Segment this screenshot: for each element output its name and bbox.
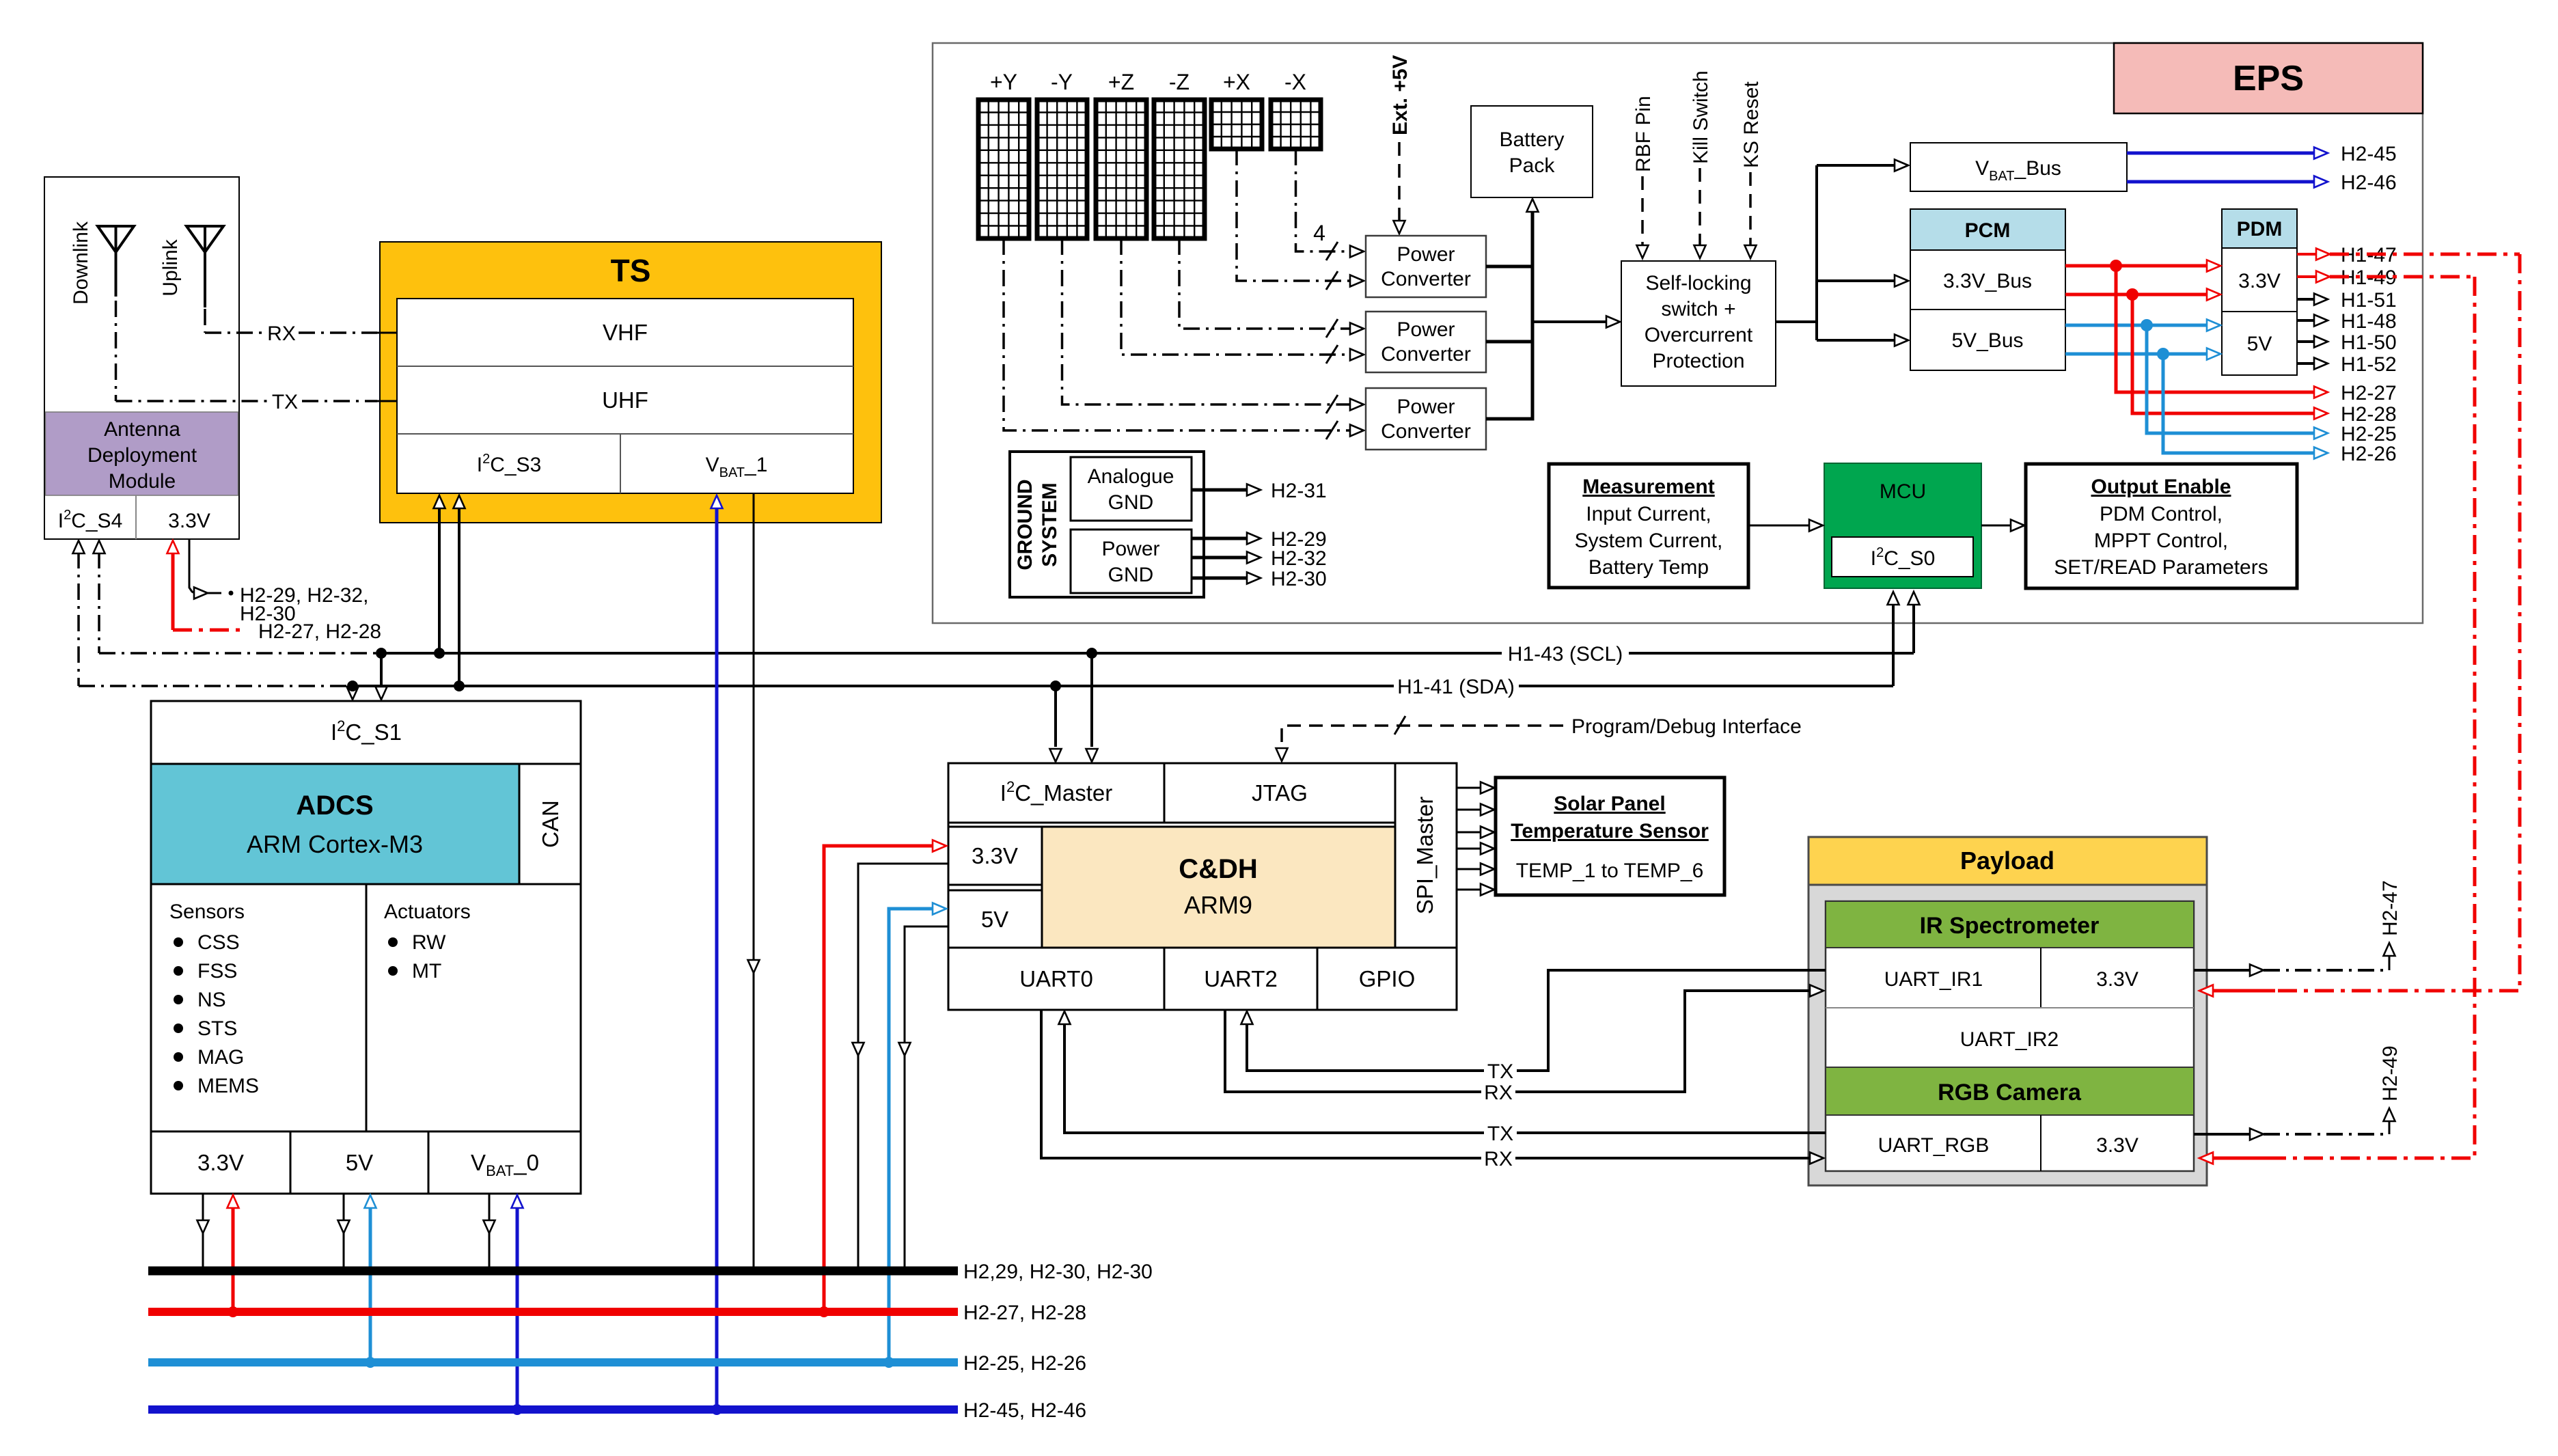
wire solar panel -Z to power converter (1179, 238, 1364, 338)
svg-text:Analogue: Analogue (1088, 465, 1174, 488)
svg-text:3.3V: 3.3V (168, 510, 210, 532)
payload UART_RGB / 3.3V row (1878, 1115, 2138, 1171)
svg-text:3.3V: 3.3V (972, 843, 1018, 868)
svg-text:3.3V: 3.3V (2096, 1134, 2138, 1157)
ADCS actuators list (384, 901, 471, 983)
TS row separators (397, 366, 853, 367)
solar panel +Y (978, 70, 1029, 238)
wire C&DH 3.3V red feed (819, 840, 946, 1318)
EPS title box (2114, 43, 2423, 113)
svg-text:Solar Panel: Solar Panel (1554, 793, 1665, 815)
svg-text:H2-25, H2-26: H2-25, H2-26 (963, 1352, 1086, 1375)
antenna symbol Uplink (187, 226, 223, 307)
wire Kill Switch (1690, 70, 1712, 258)
svg-text:Power: Power (1101, 538, 1159, 560)
svg-text:3.3V: 3.3V (2096, 968, 2138, 991)
TS inner box (397, 299, 853, 493)
svg-text:TX: TX (1487, 1060, 1513, 1083)
battery pack box (1471, 106, 1593, 197)
TS RX entry tick (377, 332, 397, 334)
svg-text:PCM: PCM (1965, 219, 2011, 242)
wire H1-50 output (2297, 331, 2397, 354)
svg-text:SYSTEM: SYSTEM (1039, 482, 1061, 566)
svg-text:UHF: UHF (602, 387, 648, 413)
wire IR 3.3V red feed from H1-47 (2199, 254, 2520, 997)
svg-text:Payload: Payload (1960, 847, 2054, 875)
wire H2-45 (2127, 143, 2397, 165)
svg-text:H1-48: H1-48 (2341, 310, 2397, 333)
svg-text:Converter: Converter (1381, 343, 1471, 366)
junction dots I2C bus (376, 648, 387, 659)
svg-text:H2-30: H2-30 (1271, 568, 1327, 590)
ADCS CAN cell (519, 764, 581, 884)
wire program/debug interface to JTAG (1276, 715, 1802, 761)
svg-text:+X: +X (1223, 70, 1250, 94)
wire trunk to VBAT_Bus (1817, 160, 1908, 171)
wire ADCS VBAT_0 blue riser (512, 1195, 523, 1415)
svg-text:NS: NS (197, 989, 226, 1011)
svg-text:System Current,: System Current, (1575, 530, 1723, 552)
power GND box (1071, 530, 1192, 593)
wire 5V_Bus to PDM line1 (2065, 319, 2220, 331)
wire UART2 TX to IR spectrometer (1241, 970, 1826, 1083)
svg-text:IR Spectrometer: IR Spectrometer (1920, 913, 2100, 939)
wire SDA drop to ADCS I2C_S1 (347, 685, 359, 700)
wire C&DH 5V cyan feed (883, 903, 946, 1369)
svg-text:ARM Cortex-M3: ARM Cortex-M3 (247, 830, 423, 858)
svg-text:H2-46: H2-46 (2341, 171, 2397, 194)
svg-text:Sensors: Sensors (169, 901, 245, 923)
svg-text:Self-locking: Self-locking (1645, 272, 1751, 294)
svg-text:3.3V_Bus: 3.3V_Bus (1943, 270, 2032, 292)
svg-text:Output Enable: Output Enable (2091, 476, 2231, 498)
TS box (380, 242, 881, 523)
svg-text:MT: MT (412, 960, 441, 983)
wire H2-29 (1192, 528, 1327, 551)
wire switch output trunk (1776, 320, 1817, 323)
svg-text:H2-49: H2-49 (2379, 1045, 2402, 1101)
svg-text:GROUND: GROUND (1014, 479, 1036, 570)
PDM box (2222, 209, 2297, 375)
wire power converter 2 output (1486, 340, 1532, 344)
svg-text:I2C_Master: I2C_Master (1000, 778, 1112, 806)
wire KS Reset (1740, 81, 1763, 258)
solar panel -Z (1154, 70, 1205, 238)
wire 3.3V_Bus to PDM line2 (2065, 288, 2220, 301)
wire IR 3.3V out H2-47 (2194, 880, 2402, 976)
svg-text:PDM Control,: PDM Control, (2100, 503, 2223, 525)
wire solar panel +Y to power converter (1004, 238, 1364, 439)
svg-text:Downlink: Downlink (70, 221, 92, 305)
svg-text:H1-50: H1-50 (2341, 331, 2397, 354)
wire ADCS 3.3V red riser (228, 1195, 239, 1317)
ground system box (1010, 452, 1204, 597)
svg-text:4: 4 (1313, 221, 1325, 245)
ADCS outer box (151, 701, 581, 1194)
wire solar panel -Y to power converter (1062, 238, 1364, 413)
antenna deployment module box (44, 177, 239, 539)
wire solar panel -X to power converter (1296, 149, 1364, 260)
wire H1-51 output (2297, 289, 2397, 312)
svg-text:Converter: Converter (1381, 268, 1471, 290)
svg-text:H2-32: H2-32 (1271, 547, 1327, 570)
payload yellow header (1809, 837, 2207, 885)
wire TS ground return (748, 493, 760, 1271)
wire SCL drop to C&DH I2C_Master (1086, 653, 1098, 762)
svg-text:ARM9: ARM9 (1184, 891, 1252, 919)
svg-text:TS: TS (611, 253, 651, 288)
payload UART_IR2 row (1826, 1028, 2194, 1067)
wire ADCS 3.3V ground drop (197, 1194, 209, 1271)
svg-text:+Y: +Y (990, 70, 1017, 94)
wires SPI_Master to temperature sensors (1457, 782, 1494, 896)
wire ADCS 5V ground drop (338, 1194, 350, 1271)
svg-text:GND: GND (1108, 491, 1154, 514)
wire I2C SDA bus H1-41 (353, 592, 1899, 698)
wire MCU to output enable (1981, 520, 2024, 532)
svg-text:3.3V: 3.3V (2238, 270, 2281, 292)
svg-text:GND: GND (1108, 564, 1154, 586)
wire H2-25 branch (2147, 325, 2397, 445)
svg-text:Module: Module (109, 470, 176, 493)
svg-text:MCU: MCU (1880, 480, 1926, 503)
wire trunk to 5V_Bus (1817, 335, 1908, 346)
antenna module purple section (46, 412, 238, 495)
svg-text:Power: Power (1397, 243, 1455, 266)
svg-text:-Z: -Z (1169, 70, 1189, 94)
C&DH outer box (948, 763, 1457, 1010)
svg-text:H2,29, H2-30, H2-30: H2,29, H2-30, H2-30 (963, 1261, 1153, 1283)
wire H2-32 (1192, 547, 1327, 570)
svg-text:+Z: +Z (1108, 70, 1134, 94)
wire 5V_Bus to PDM line2 (2065, 348, 2220, 360)
wire ADCS 5V cyan riser (365, 1195, 376, 1368)
payload inner box (1826, 901, 2194, 1171)
svg-text:switch +: switch + (1661, 298, 1735, 320)
EPS outer box (933, 43, 2423, 623)
C&DH ARM9 core (1042, 827, 1395, 948)
antenna pin row divider (135, 495, 137, 539)
svg-text:TX: TX (272, 391, 298, 413)
wire TX downlink to TS (116, 301, 378, 413)
svg-text:ADCS: ADCS (296, 791, 373, 821)
output enable box (2026, 464, 2297, 588)
svg-text:H1-52: H1-52 (2341, 353, 2397, 376)
wire SCL drop to ADCS I2C_S1 (376, 653, 387, 700)
svg-text:UART2: UART2 (1204, 966, 1278, 991)
svg-text:RW: RW (412, 931, 446, 954)
wire C&DH 3.3V ground return (853, 864, 949, 1271)
TS TX entry tick (377, 400, 397, 402)
analogue GND box (1071, 457, 1192, 521)
wire C&DH 5V ground return (899, 926, 949, 1271)
svg-text:UART_IR2: UART_IR2 (1960, 1028, 2059, 1051)
svg-text:H2-30: H2-30 (240, 603, 296, 625)
svg-text:H2-27: H2-27 (2341, 382, 2397, 404)
wire UART0 RX from RGB camera (1041, 1010, 1824, 1170)
svg-text:UART_RGB: UART_RGB (1878, 1134, 1990, 1157)
svg-text:SPI_Master: SPI_Master (1412, 797, 1438, 914)
solar panel +Z (1096, 70, 1146, 238)
wire H1-49 output (2297, 266, 2475, 289)
svg-text:SET/READ Parameters: SET/READ Parameters (2054, 556, 2268, 579)
wire Ext. +5V input (1389, 55, 1412, 234)
svg-text:H2-26: H2-26 (2341, 443, 2397, 465)
svg-text:Deployment: Deployment (87, 444, 197, 467)
C&DH 3.3V cell (948, 827, 1042, 885)
svg-text:VHF: VHF (603, 320, 648, 345)
svg-text:H2-27, H2-28: H2-27, H2-28 (963, 1302, 1086, 1324)
svg-text:Power: Power (1397, 318, 1455, 341)
svg-text:MAG: MAG (197, 1046, 244, 1069)
bus H2-45 H2-46 (dark blue) (148, 1399, 1086, 1422)
svg-text:RX: RX (1484, 1148, 1513, 1170)
svg-text:H2-47: H2-47 (2379, 880, 2402, 936)
wire TS I2C_S3 SCL pin (434, 495, 445, 653)
solar panel -X (1271, 70, 1321, 149)
ADCS sensors list (169, 901, 259, 1097)
wire antenna ground return H2-29 H2-32 H2-30 (189, 539, 368, 625)
wire TS VBAT_1 dark blue to bus (711, 495, 723, 1415)
svg-text:C&DH: C&DH (1179, 854, 1258, 884)
wire antenna I2C_S4 B to SCL (94, 540, 378, 653)
svg-text:RGB Camera: RGB Camera (1938, 1080, 2082, 1105)
IR spectrometer header (1826, 901, 2194, 948)
measurement box (1549, 464, 1748, 588)
svg-text:MEMS: MEMS (197, 1075, 259, 1097)
wire UART0 TX to RGB camera (1059, 1011, 1826, 1145)
svg-text:FSS: FSS (197, 960, 237, 983)
svg-text:UART0: UART0 (1019, 966, 1093, 991)
svg-text:5V: 5V (2247, 333, 2272, 355)
svg-text:Battery: Battery (1499, 128, 1564, 151)
wire H2-27 branch (2116, 266, 2397, 404)
svg-text:Measurement: Measurement (1582, 476, 1714, 498)
svg-text:Battery Temp: Battery Temp (1589, 556, 1709, 579)
wire antenna I2C_S4 A to SDA (73, 540, 349, 686)
C&DH top row divider (948, 822, 1395, 824)
wire UART2 RX from IR spectrometer (1225, 985, 1824, 1105)
ADCS power pin row (151, 1131, 581, 1133)
wire battery to self-locking switch (1532, 316, 1620, 328)
svg-text:MPPT Control,: MPPT Control, (2094, 530, 2228, 552)
svg-text:-Y: -Y (1051, 70, 1073, 94)
svg-text:RX: RX (1484, 1082, 1513, 1104)
MCU box (1824, 463, 1981, 588)
svg-text:JTAG: JTAG (1252, 780, 1308, 806)
svg-text:Converter: Converter (1381, 420, 1471, 443)
solar panel -Y (1037, 70, 1087, 238)
bus H2-27 H2-28 (red) (148, 1302, 1086, 1324)
wire H1-47 output (2297, 244, 2520, 266)
svg-text:EPS: EPS (2233, 59, 2304, 98)
svg-text:RX: RX (267, 322, 296, 345)
self-locking switch box (1621, 261, 1776, 386)
svg-text:Kill Switch: Kill Switch (1690, 70, 1712, 164)
svg-text:Program/Debug Interface: Program/Debug Interface (1571, 715, 1802, 738)
svg-text:-X: -X (1284, 70, 1306, 94)
svg-text:H1-51: H1-51 (2341, 289, 2397, 312)
power converter box 2 (1366, 312, 1486, 372)
antenna symbol Downlink (98, 226, 134, 297)
wire H2-28 branch (2132, 294, 2397, 426)
svg-text:TEMP_1 to TEMP_6: TEMP_1 to TEMP_6 (1516, 860, 1704, 882)
wire H2-31 (1192, 480, 1327, 502)
solar panel temperature sensor box (1496, 778, 1724, 895)
RGB camera header (1826, 1067, 2194, 1115)
svg-text:Overcurrent: Overcurrent (1645, 324, 1753, 346)
svg-text:Input Current,: Input Current, (1586, 503, 1711, 525)
svg-text:5V: 5V (346, 1150, 373, 1175)
wire I2C SCL bus H1-43 (381, 592, 1920, 665)
wire SDA drop to C&DH I2C_Master (1050, 686, 1062, 762)
wire solar panel +Z to power converter (1121, 238, 1364, 363)
svg-text:Protection: Protection (1652, 350, 1744, 372)
bus H2-25 H2-26 (light blue) (148, 1352, 1086, 1375)
svg-text:GPIO: GPIO (1359, 966, 1416, 991)
svg-text:RBF Pin: RBF Pin (1632, 96, 1655, 172)
payload UART_IR1 / 3.3V row (1826, 948, 2194, 1008)
wire antenna 3.3V red feed H2-27 H2-28 (167, 540, 382, 643)
svg-text:H1-43 (SCL): H1-43 (SCL) (1508, 643, 1623, 665)
svg-text:Antenna: Antenna (104, 418, 180, 441)
wire H2-46 (2127, 171, 2397, 194)
svg-text:CSS: CSS (197, 931, 240, 954)
wire RX uplink to TS (205, 309, 377, 345)
wire solar panel +X to power converter (1237, 149, 1364, 290)
ADCS cyan core box (151, 764, 519, 884)
wire ADCS VBAT_0 ground drop (484, 1194, 495, 1271)
svg-text:CAN: CAN (538, 800, 563, 848)
svg-text:Temperature Sensor: Temperature Sensor (1511, 820, 1709, 842)
wire H1-52 output (2297, 353, 2397, 376)
ADCS sensors/actuators divider (366, 884, 368, 1131)
bus H2,29 H2-30 ground (black) (148, 1261, 1153, 1283)
wire 3.3V_Bus to PDM line1 (2065, 260, 2220, 272)
VBAT_Bus box (1910, 143, 2127, 191)
wire power converter 1 output (1486, 265, 1532, 269)
svg-text:Power: Power (1397, 396, 1455, 418)
wire trunk to 3.3V_Bus (1817, 275, 1908, 287)
wire RGB 3.3V red feed from H1-49 (2199, 277, 2475, 1164)
power converter box 1 (1366, 236, 1486, 297)
svg-text:H1-41 (SDA): H1-41 (SDA) (1397, 676, 1515, 698)
svg-text:H2-31: H2-31 (1271, 480, 1327, 502)
wire measurement to MCU (1748, 520, 1823, 532)
C&DH 5V cell (948, 890, 1042, 948)
wire H2-26 branch (2163, 354, 2397, 465)
wire TS I2C_S3 SDA pin (454, 495, 465, 686)
svg-text:Pack: Pack (1509, 154, 1556, 177)
PCM box (1910, 209, 2065, 370)
svg-text:5V_Bus: 5V_Bus (1951, 329, 2023, 352)
svg-text:5V: 5V (981, 907, 1008, 932)
wire power converter 3 output (1486, 417, 1535, 421)
svg-text:PDM: PDM (2237, 218, 2283, 241)
svg-text:Ext. +5V: Ext. +5V (1389, 55, 1412, 135)
svg-text:Actuators: Actuators (384, 901, 471, 923)
wire RBF Pin (1632, 96, 1655, 258)
wire H2-30 (1192, 568, 1327, 590)
wire RGB 3.3V out H2-49 (2194, 1045, 2402, 1140)
wire H1-48 output (2297, 310, 2397, 333)
svg-text:TX: TX (1487, 1123, 1513, 1145)
svg-text:H2-45, H2-46: H2-45, H2-46 (963, 1399, 1086, 1422)
svg-text:3.3V: 3.3V (197, 1150, 244, 1175)
wire battery charge bus (1527, 199, 1539, 419)
svg-text:KS Reset: KS Reset (1740, 81, 1763, 168)
payload outer box (1809, 837, 2207, 1185)
power converter box 3 (1366, 388, 1486, 450)
svg-text:STS: STS (197, 1017, 237, 1040)
C&DH bottom row (948, 947, 1457, 949)
svg-text:Uplink: Uplink (159, 238, 182, 296)
svg-text:H2-45: H2-45 (2341, 143, 2397, 165)
svg-text:UART_IR1: UART_IR1 (1884, 968, 1983, 991)
solar panel +X (1211, 70, 1262, 149)
